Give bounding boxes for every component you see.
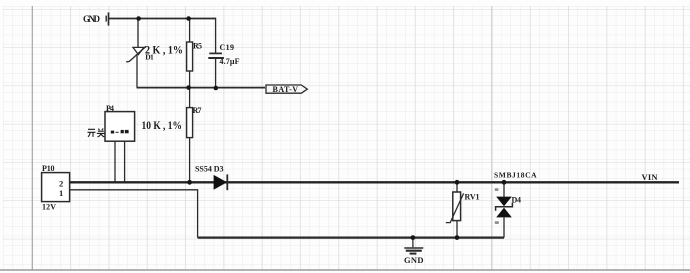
svg-text:SMBJ18CA: SMBJ18CA — [494, 171, 537, 180]
svg-text:D4: D4 — [512, 196, 522, 205]
svg-text:R5: R5 — [193, 42, 202, 51]
svg-text:12V: 12V — [42, 203, 56, 212]
svg-text:C19: C19 — [220, 43, 235, 52]
svg-text:D1: D1 — [145, 52, 154, 61]
svg-text:VIN: VIN — [642, 172, 659, 182]
svg-text:SS54 D3: SS54 D3 — [195, 165, 224, 174]
svg-text:GND: GND — [404, 255, 424, 265]
svg-text:R7: R7 — [193, 106, 202, 115]
svg-text:1: 1 — [59, 188, 63, 198]
svg-text:10 K , 1%: 10 K , 1% — [142, 120, 183, 132]
svg-text:GND: GND — [83, 14, 101, 24]
svg-text:P10: P10 — [42, 164, 55, 173]
svg-text:4.7µF: 4.7µF — [220, 57, 240, 66]
svg-text:RV1: RV1 — [465, 193, 480, 202]
svg-text:P4: P4 — [106, 104, 114, 113]
svg-text:BAT-V: BAT-V — [273, 85, 299, 94]
svg-text:2: 2 — [59, 179, 63, 189]
